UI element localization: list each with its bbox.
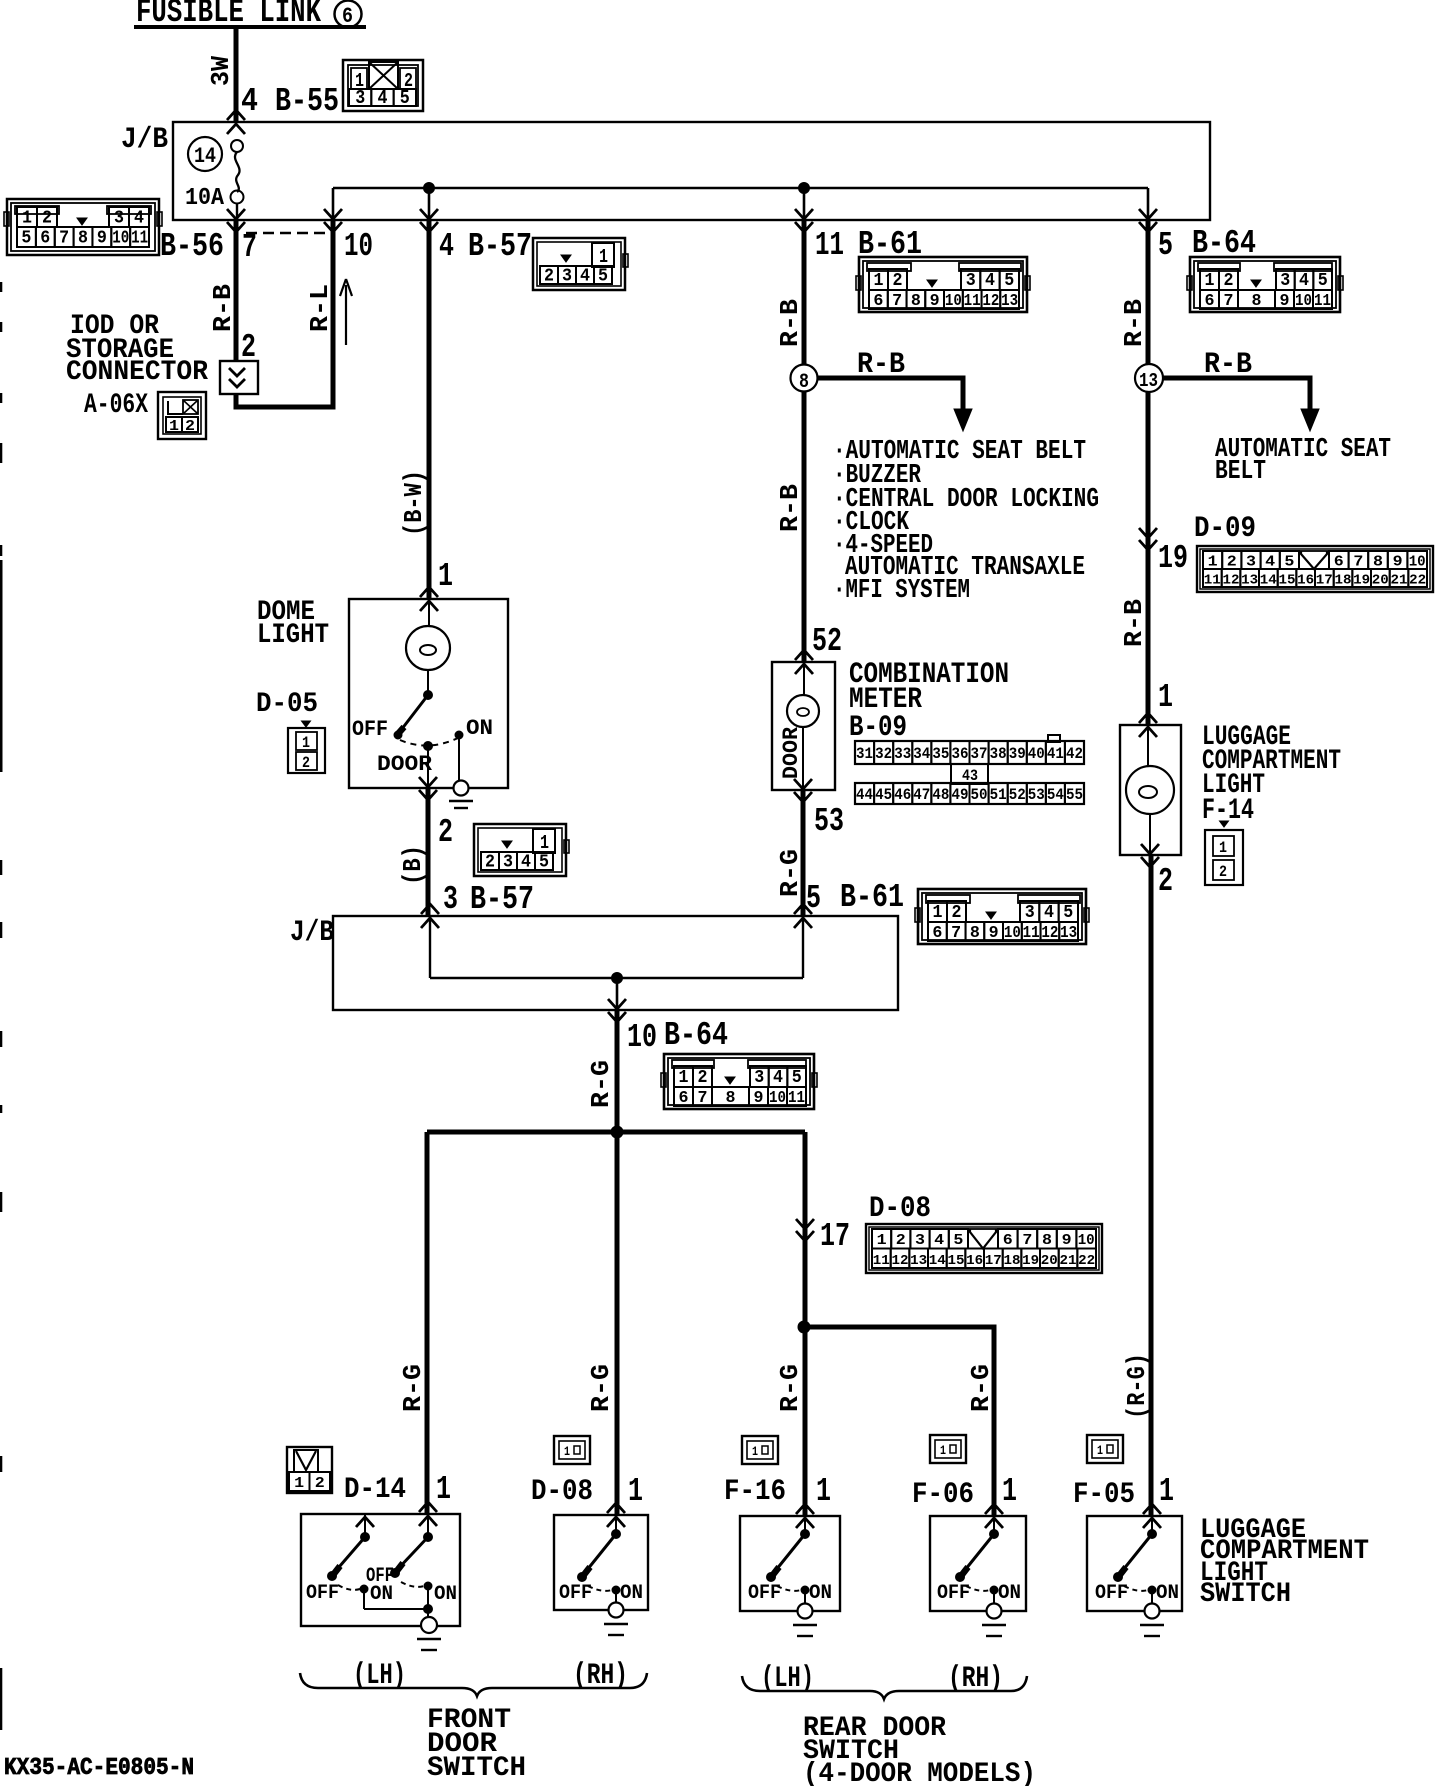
svg-text:32: 32: [875, 745, 892, 763]
svg-text:12: 12: [1223, 573, 1240, 589]
wire 5 R-B mid: [1146, 392, 1151, 724]
svg-text:LIGHT: LIGHT: [257, 620, 329, 651]
svg-text:12: 12: [892, 1253, 909, 1269]
svg-text:11: 11: [1314, 292, 1331, 311]
svg-text:12: 12: [982, 292, 999, 311]
svg-text:7: 7: [59, 229, 69, 249]
svg-text:SWITCH: SWITCH: [1200, 1579, 1291, 1610]
svg-text:CONNECTOR: CONNECTOR: [66, 357, 208, 388]
svg-text:54: 54: [1047, 786, 1064, 804]
svg-text:2: 2: [544, 267, 554, 287]
svg-text:ON: ON: [620, 1582, 643, 1605]
svg-text:OFF: OFF: [352, 717, 388, 742]
wire luggage R-G long: [1149, 855, 1154, 1515]
svg-text:BELT: BELT: [1215, 457, 1266, 487]
connector icon B-57 (upper): [533, 238, 628, 290]
left edge mark: [0, 282, 3, 1730]
connector icon B-55: [343, 60, 423, 111]
svg-text:11: 11: [1204, 573, 1221, 589]
svg-text:8: 8: [1252, 292, 1262, 311]
dome light box: [349, 599, 508, 788]
svg-text:1: 1: [628, 1473, 643, 1510]
svg-text:2: 2: [302, 754, 310, 772]
arrows into dome light: [420, 587, 438, 597]
svg-text:KX35-AC-E0805-N: KX35-AC-E0805-N: [4, 1755, 194, 1782]
exit arrows pin 7: [227, 209, 245, 219]
svg-text:J/B: J/B: [121, 123, 168, 157]
svg-text:3W: 3W: [206, 56, 236, 86]
svg-text:48: 48: [932, 786, 949, 804]
svg-text:F-16: F-16: [724, 1475, 786, 1509]
arrows in IOD connector: [229, 368, 245, 376]
connector icon B-57 (lower): [474, 824, 569, 876]
dome wire door to exit: [427, 746, 429, 788]
svg-text:15: 15: [1279, 573, 1296, 589]
branch wire R-B to automatic seat belt: [1162, 378, 1310, 410]
exit arrows pin 11: [795, 209, 813, 219]
junction block J/B (upper): [173, 122, 1210, 220]
svg-text:1: 1: [169, 418, 179, 435]
svg-text:11: 11: [815, 227, 844, 264]
connector icon B-61 (lower): [915, 889, 1089, 944]
wire center to front RH: [615, 1132, 620, 1514]
direction arrow R-L: [340, 279, 352, 345]
svg-text:7: 7: [1022, 1232, 1032, 1249]
svg-text:12: 12: [1041, 924, 1058, 943]
svg-text:4: 4: [521, 853, 531, 873]
label pin 11 B-61: [815, 226, 922, 264]
junction block J/B (lower): [333, 916, 898, 1010]
svg-text:1: 1: [564, 1444, 570, 1459]
svg-text:22: 22: [1409, 573, 1426, 589]
svg-text:14: 14: [1260, 573, 1277, 589]
label pin 4 B-57: [439, 228, 532, 265]
svg-text:8: 8: [799, 371, 809, 394]
svg-text:5: 5: [1284, 554, 1294, 571]
fuse element: [231, 140, 244, 220]
svg-text:49: 49: [952, 786, 969, 804]
svg-text:D-14: D-14: [344, 1473, 406, 1507]
svg-text:3: 3: [966, 271, 976, 291]
svg-text:2: 2: [893, 271, 903, 291]
dome DOOR contact dot: [424, 742, 433, 751]
junction dot rear: [798, 1321, 810, 1333]
connector icon A-06X: [158, 392, 206, 439]
dome ON contact: [455, 731, 463, 739]
svg-text:B-55: B-55: [275, 83, 339, 120]
svg-text:R-B: R-B: [775, 299, 805, 347]
svg-text:5: 5: [1004, 271, 1014, 291]
svg-text:9: 9: [1280, 292, 1290, 311]
svg-text:4: 4: [241, 83, 258, 120]
connector icon F-05 pin1: [1087, 1435, 1123, 1463]
dome ground circle: [454, 781, 469, 796]
svg-text:37: 37: [971, 745, 988, 763]
wire R-G front LH: [425, 1132, 430, 1513]
svg-text:11: 11: [964, 292, 981, 311]
wire 3W from fusible link: [234, 27, 239, 122]
svg-text:7: 7: [951, 924, 961, 943]
svg-text:4: 4: [580, 267, 590, 287]
label pin 4 B-55: [241, 83, 339, 120]
arrows into JB2 pin5: [794, 904, 812, 914]
svg-text:3: 3: [443, 881, 458, 918]
svg-text:16: 16: [966, 1253, 983, 1269]
svg-text:9: 9: [97, 229, 107, 249]
svg-text:13: 13: [910, 1253, 927, 1269]
meter door lamp: [787, 662, 819, 790]
svg-text:45: 45: [875, 786, 892, 804]
svg-text:7: 7: [1353, 554, 1363, 571]
label LUGGAGE COMPARTMENT LIGHT F-14: [1202, 722, 1341, 828]
svg-text:5: 5: [539, 853, 549, 873]
svg-text:1: 1: [1208, 554, 1218, 571]
svg-text:1: 1: [1002, 1473, 1017, 1510]
svg-text:ON: ON: [434, 1583, 457, 1606]
wire 11 R-B upper: [802, 220, 807, 365]
svg-text:(B): (B): [398, 845, 428, 885]
svg-text:1: 1: [874, 271, 884, 291]
svg-text:2: 2: [485, 853, 495, 873]
label pin 10 B-64 lower: [627, 1017, 728, 1056]
svg-text:11: 11: [131, 229, 148, 249]
svg-text:J/B: J/B: [290, 916, 334, 950]
svg-text:OFF: OFF: [1095, 1582, 1128, 1605]
svg-text:1: 1: [816, 1473, 831, 1510]
svg-text:34: 34: [913, 745, 930, 763]
label AUTOMATIC SEAT BELT right: [1215, 435, 1391, 487]
svg-text:3: 3: [355, 87, 365, 109]
arrows into junction block: [227, 110, 245, 120]
wire 2 B: [426, 788, 431, 916]
seat belt system list: [833, 437, 1099, 606]
svg-text:19: 19: [1022, 1253, 1039, 1269]
label DOME LIGHT: [257, 597, 329, 651]
svg-text:3: 3: [114, 209, 124, 229]
svg-text:2: 2: [1227, 554, 1237, 571]
svg-text:55: 55: [1066, 786, 1083, 804]
svg-text:18: 18: [1004, 1253, 1021, 1269]
svg-text:17: 17: [985, 1253, 1002, 1269]
svg-text:4: 4: [1044, 903, 1054, 923]
svg-text:2: 2: [1224, 271, 1234, 291]
svg-text:1: 1: [1205, 271, 1215, 291]
label IOD OR STORAGE CONNECTOR: [66, 311, 208, 388]
svg-text:6: 6: [873, 292, 883, 311]
svg-text:R-G: R-G: [586, 1060, 616, 1108]
svg-text:4: 4: [378, 87, 388, 109]
svg-text:6: 6: [40, 229, 50, 249]
svg-text:F-14: F-14: [1202, 794, 1254, 828]
joint circle 8: [791, 365, 818, 392]
svg-text:10: 10: [344, 228, 373, 265]
connector icon D-08 pin1: [554, 1436, 590, 1464]
svg-text:2: 2: [952, 903, 962, 923]
svg-text:A-06X: A-06X: [84, 390, 148, 421]
connector icon B-64 (lower): [661, 1054, 817, 1109]
dome switch lever: [398, 695, 428, 734]
svg-text:17: 17: [1316, 573, 1333, 589]
svg-text:38: 38: [990, 745, 1007, 763]
junction dot JB2: [612, 973, 623, 984]
svg-text:53: 53: [814, 803, 844, 840]
svg-text:(4-DOOR MODELS): (4-DOOR MODELS): [803, 1759, 1036, 1786]
exit arrows dome: [419, 777, 437, 787]
svg-text:5: 5: [792, 1068, 802, 1088]
label REAR DOOR SWITCH 4-DOOR MODELS: [803, 1713, 1036, 1786]
svg-text:8: 8: [726, 1089, 736, 1108]
svg-text:22: 22: [1078, 1253, 1095, 1269]
label pin 3 B-57 lower: [443, 881, 534, 918]
svg-text:36: 36: [952, 745, 969, 763]
svg-text:15: 15: [948, 1253, 965, 1269]
svg-text:1: 1: [940, 1443, 946, 1458]
svg-text:21: 21: [1391, 573, 1408, 589]
svg-text:41: 41: [1047, 745, 1064, 763]
svg-text:5: 5: [1158, 227, 1173, 264]
rear door switch RH: [930, 1504, 1026, 1636]
svg-text:1: 1: [877, 1232, 887, 1249]
svg-text:ON: ON: [809, 1582, 832, 1605]
svg-text:7: 7: [242, 229, 257, 266]
connector icon D-14: [287, 1447, 332, 1493]
svg-text:OFF: OFF: [366, 1565, 394, 1588]
svg-text:4: 4: [1299, 271, 1309, 291]
svg-text:1: 1: [1158, 679, 1173, 716]
svg-text:D-09: D-09: [1194, 512, 1256, 546]
svg-text:2: 2: [698, 1068, 708, 1088]
svg-text:DOOR: DOOR: [377, 752, 433, 777]
svg-text:33: 33: [894, 745, 911, 763]
svg-text:1: 1: [438, 558, 453, 595]
luggage light box: [1120, 725, 1181, 855]
svg-text:D-05: D-05: [256, 689, 318, 720]
arrows into JB2 pin3: [421, 904, 439, 914]
svg-text:10A: 10A: [185, 185, 225, 212]
svg-text:17: 17: [820, 1218, 850, 1255]
svg-text:18: 18: [1335, 573, 1352, 589]
connector icon F-14: [1205, 821, 1243, 885]
exit arrows pin 4: [420, 209, 438, 219]
svg-text:4: 4: [439, 228, 454, 265]
svg-text:R-B: R-B: [857, 348, 905, 382]
arrows D-09: [1139, 528, 1157, 538]
wire 4 B-W: [427, 220, 432, 598]
svg-text:R-G: R-G: [398, 1364, 428, 1412]
exit arrows pin 5: [1139, 209, 1157, 219]
svg-text:OFF: OFF: [559, 1582, 592, 1605]
luggage compartment light switch: [1087, 1504, 1182, 1636]
svg-text:42: 42: [1066, 745, 1083, 763]
svg-text:1: 1: [302, 734, 310, 752]
wire 7 R-B: [234, 220, 239, 362]
connector icon F-16 pin1: [742, 1436, 778, 1464]
wire 11 R-B lower: [802, 391, 807, 661]
wire 10 R-G: [615, 1010, 620, 1135]
svg-text:1: 1: [540, 832, 549, 854]
svg-text:40: 40: [1028, 745, 1045, 763]
svg-text:R-G: R-G: [775, 849, 805, 897]
luggage light lamp: [1126, 725, 1174, 855]
svg-text:39: 39: [1009, 745, 1026, 763]
svg-text:B-56: B-56: [160, 228, 224, 265]
svg-text:14: 14: [929, 1253, 946, 1269]
arrows pin 17: [796, 1219, 814, 1229]
svg-text:3: 3: [1246, 554, 1256, 571]
label pin 5 B-64: [1158, 225, 1256, 264]
svg-text:B-57: B-57: [468, 228, 532, 265]
svg-text:F-06: F-06: [912, 1478, 974, 1512]
svg-text:10: 10: [945, 292, 962, 311]
svg-text:9: 9: [930, 292, 940, 311]
svg-text:5: 5: [21, 229, 31, 249]
distribution wire front doors: [427, 1130, 805, 1135]
fusible link 6 label: [134, 0, 366, 31]
wire loop IOD to R-L: [236, 220, 333, 407]
svg-text:1: 1: [1159, 1473, 1174, 1510]
svg-text:10: 10: [112, 229, 129, 249]
svg-text:3: 3: [503, 853, 513, 873]
svg-text:3: 3: [562, 267, 572, 287]
svg-text:6: 6: [679, 1089, 689, 1108]
svg-text:20: 20: [1372, 573, 1389, 589]
svg-text:1: 1: [1097, 1443, 1103, 1458]
svg-text:8: 8: [911, 292, 921, 311]
arrows into combination meter: [795, 650, 813, 660]
svg-text:1: 1: [22, 209, 32, 229]
svg-text:1: 1: [1219, 839, 1227, 857]
svg-text:ON: ON: [1156, 1582, 1179, 1605]
svg-text:ON: ON: [466, 716, 493, 741]
svg-text:52: 52: [1009, 786, 1026, 804]
svg-text:B-57: B-57: [470, 881, 534, 918]
fuse 14 circle label: [188, 137, 222, 171]
brace rear door switches: [742, 1676, 1027, 1699]
label pin 5 B-61 lower: [806, 879, 904, 917]
svg-text:35: 35: [932, 745, 949, 763]
front door switch LH: [301, 1502, 460, 1650]
svg-text:D-08: D-08: [531, 1475, 593, 1509]
svg-text:5: 5: [953, 1232, 963, 1249]
svg-text:7: 7: [1224, 292, 1234, 311]
connector icon B-56: [4, 199, 162, 255]
connector icon D-09: [1197, 546, 1433, 592]
svg-text:R-B: R-B: [208, 284, 238, 332]
svg-text:OFF: OFF: [306, 1582, 339, 1605]
svg-text:8: 8: [1373, 554, 1383, 571]
svg-text:4: 4: [934, 1232, 944, 1249]
svg-text:9: 9: [989, 924, 999, 943]
inner link JB2: [430, 916, 803, 1010]
svg-text:2: 2: [438, 814, 453, 851]
label LUGGAGE COMPARTMENT LIGHT SWITCH: [1200, 1515, 1369, 1610]
connector icon D-08: [866, 1224, 1102, 1273]
svg-text:3: 3: [1280, 271, 1290, 291]
svg-text:14: 14: [194, 144, 216, 169]
svg-text:52: 52: [812, 623, 842, 660]
branch wire R-B to seat belt systems: [815, 378, 963, 410]
junction dot bus-B57: [424, 183, 435, 194]
svg-text:10: 10: [769, 1089, 786, 1108]
connector icon F-06 pin1: [930, 1435, 966, 1463]
svg-text:2: 2: [1158, 863, 1173, 900]
svg-text:10: 10: [1004, 924, 1021, 943]
svg-text:1: 1: [752, 1444, 758, 1459]
svg-text:3: 3: [754, 1068, 764, 1088]
svg-text:6: 6: [1003, 1232, 1013, 1249]
svg-text:13: 13: [1241, 573, 1258, 589]
svg-text:1: 1: [933, 903, 943, 923]
svg-text:SWITCH: SWITCH: [427, 1753, 526, 1784]
svg-text:6: 6: [932, 924, 942, 943]
svg-text:4: 4: [1265, 554, 1275, 571]
svg-text:46: 46: [894, 786, 911, 804]
svg-text:DOOR: DOOR: [779, 726, 804, 779]
svg-text:2: 2: [315, 1475, 325, 1492]
svg-text:8: 8: [78, 229, 88, 249]
svg-text:9: 9: [1393, 554, 1403, 571]
svg-text:6: 6: [1205, 292, 1215, 311]
svg-text:5: 5: [598, 267, 608, 287]
IOD connector box: [220, 361, 258, 394]
connector icon B-64 (upper): [1187, 257, 1343, 312]
svg-text:16: 16: [1297, 573, 1314, 589]
svg-text:1: 1: [436, 1471, 451, 1508]
exit arrows JB2 pin10: [608, 999, 626, 1009]
svg-text:8: 8: [970, 924, 980, 943]
svg-text:2: 2: [896, 1232, 906, 1249]
dome ground symbol: [449, 800, 473, 803]
svg-text:9: 9: [1062, 1232, 1072, 1249]
svg-text:11: 11: [1023, 924, 1040, 943]
svg-text:R-B: R-B: [1119, 299, 1149, 347]
connector icon D-05: [288, 721, 325, 773]
svg-text:1: 1: [294, 1475, 304, 1492]
svg-text:10: 10: [1078, 1232, 1095, 1249]
svg-text:D-08: D-08: [869, 1192, 931, 1226]
svg-text:3: 3: [915, 1232, 925, 1249]
svg-text:50: 50: [971, 786, 988, 804]
rear door switch LH: [740, 1504, 840, 1636]
arrows into luggage light: [1139, 713, 1157, 723]
svg-text:7: 7: [698, 1089, 708, 1108]
svg-text:31: 31: [856, 745, 873, 763]
front door switch RH: [554, 1503, 648, 1635]
bus line inside J/B: [333, 188, 1148, 220]
svg-text:8: 8: [1042, 1232, 1052, 1249]
svg-text:13: 13: [1139, 370, 1158, 392]
svg-text:2: 2: [1219, 863, 1227, 881]
svg-text:1: 1: [599, 246, 608, 268]
svg-text:7: 7: [892, 292, 902, 311]
svg-text:F-05: F-05: [1073, 1478, 1135, 1512]
dashed link 7-10: [246, 232, 330, 234]
exit arrows meter: [794, 779, 812, 789]
svg-text:11: 11: [873, 1253, 890, 1269]
svg-text:21: 21: [1060, 1253, 1077, 1269]
svg-text:(R-G): (R-G): [1122, 1353, 1152, 1419]
svg-text:1: 1: [679, 1068, 689, 1088]
svg-text:6: 6: [1334, 554, 1344, 571]
label FRONT DOOR SWITCH: [427, 1705, 526, 1784]
svg-text:OFF: OFF: [748, 1582, 781, 1605]
connector icon B-61 (upper): [856, 257, 1030, 312]
junction dot distribution: [611, 1126, 623, 1138]
svg-text:ON: ON: [998, 1582, 1021, 1605]
svg-text:47: 47: [913, 786, 930, 804]
svg-text:5: 5: [400, 87, 410, 109]
svg-text:5: 5: [1318, 271, 1328, 291]
